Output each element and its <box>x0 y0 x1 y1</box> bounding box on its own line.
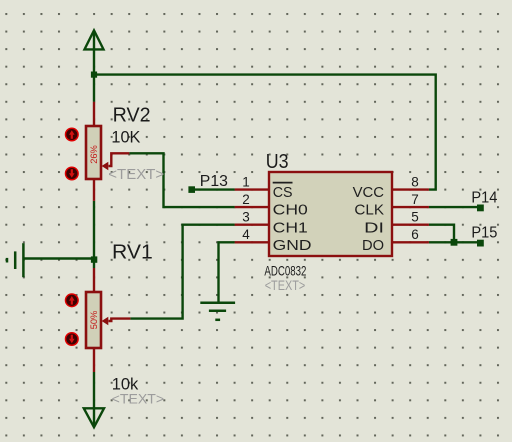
terminal P13 <box>192 188 235 190</box>
svg-text:7: 7 <box>411 192 419 207</box>
svg-text:4: 4 <box>242 227 250 242</box>
junction J2 <box>91 256 97 262</box>
RV2 body <box>86 126 101 179</box>
RV1 pin stubs <box>93 268 95 292</box>
svg-text:CS: CS <box>273 184 293 201</box>
svg-text:CH1: CH1 <box>273 219 308 236</box>
svg-text:1: 1 <box>242 174 250 189</box>
power symbol (up arrow) <box>85 30 104 101</box>
RV1 body <box>86 292 101 348</box>
svg-text:<TEXT>: <TEXT> <box>112 391 164 407</box>
potentiometer RV2 <box>66 102 165 201</box>
svg-text:50%: 50% <box>89 311 99 330</box>
wire: RV1 bottom to down arrow <box>93 372 95 425</box>
ground arrow (down) <box>84 408 104 427</box>
ground symbol (left, rotated) <box>7 243 23 277</box>
svg-text:ADC0832: ADC0832 <box>264 263 306 279</box>
U3 pin stubs left <box>235 190 268 243</box>
potentiometer RV1 <box>66 241 165 406</box>
svg-text:CLK: CLK <box>354 202 384 219</box>
wire: RV2 bottom to junction J2 <box>93 201 95 259</box>
wire: top rail from junction to VCC corner <box>94 75 436 190</box>
svg-text:RV1: RV1 <box>112 241 153 263</box>
svg-text:<TEXT>: <TEXT> <box>265 277 306 293</box>
U3 pin stubs right <box>393 190 429 243</box>
svg-text:6: 6 <box>411 227 419 242</box>
wire: left ground to junction J2 <box>23 257 94 259</box>
RV2 wiper arrow <box>109 153 130 166</box>
ground symbol (below GND pin) <box>200 303 235 320</box>
svg-text:DI: DI <box>364 219 384 236</box>
U3 body <box>269 172 392 256</box>
svg-text:10K: 10K <box>111 127 141 146</box>
wire: J2 down to RV1 <box>93 259 95 269</box>
svg-text:CH0: CH0 <box>273 202 308 219</box>
RV2 pin stubs <box>93 102 95 126</box>
svg-text:8: 8 <box>411 174 419 189</box>
svg-text:P15: P15 <box>471 224 497 241</box>
wire: RV1 wiper to CH1 (pin 3) <box>130 225 234 319</box>
svg-text:<TEXT>: <TEXT> <box>108 166 164 183</box>
RV2 adjust buttons <box>66 128 79 141</box>
terminal P15 and DI/DO wires <box>429 225 454 243</box>
svg-text:GND: GND <box>273 237 312 254</box>
junction at top rail <box>91 72 97 78</box>
svg-text:P14: P14 <box>471 189 497 206</box>
svg-text:DO: DO <box>362 237 384 254</box>
svg-text:2: 2 <box>242 192 250 207</box>
svg-text:U3: U3 <box>266 151 289 173</box>
svg-text:26%: 26% <box>89 145 99 164</box>
svg-text:VCC: VCC <box>353 184 384 201</box>
IC U3 ADC0832 <box>235 151 429 293</box>
wire: GND pin 4 to ground <box>219 242 235 301</box>
svg-text:P13: P13 <box>200 173 228 190</box>
RV1 wiper arrow <box>109 319 131 321</box>
wire: RV2 wiper to CH0 (pin 2) <box>129 153 234 207</box>
terminal P14 <box>429 206 481 208</box>
RV1 adjust buttons <box>66 294 79 307</box>
svg-text:RV2: RV2 <box>113 105 151 127</box>
svg-text:5: 5 <box>411 209 419 224</box>
svg-text:3: 3 <box>242 209 250 224</box>
